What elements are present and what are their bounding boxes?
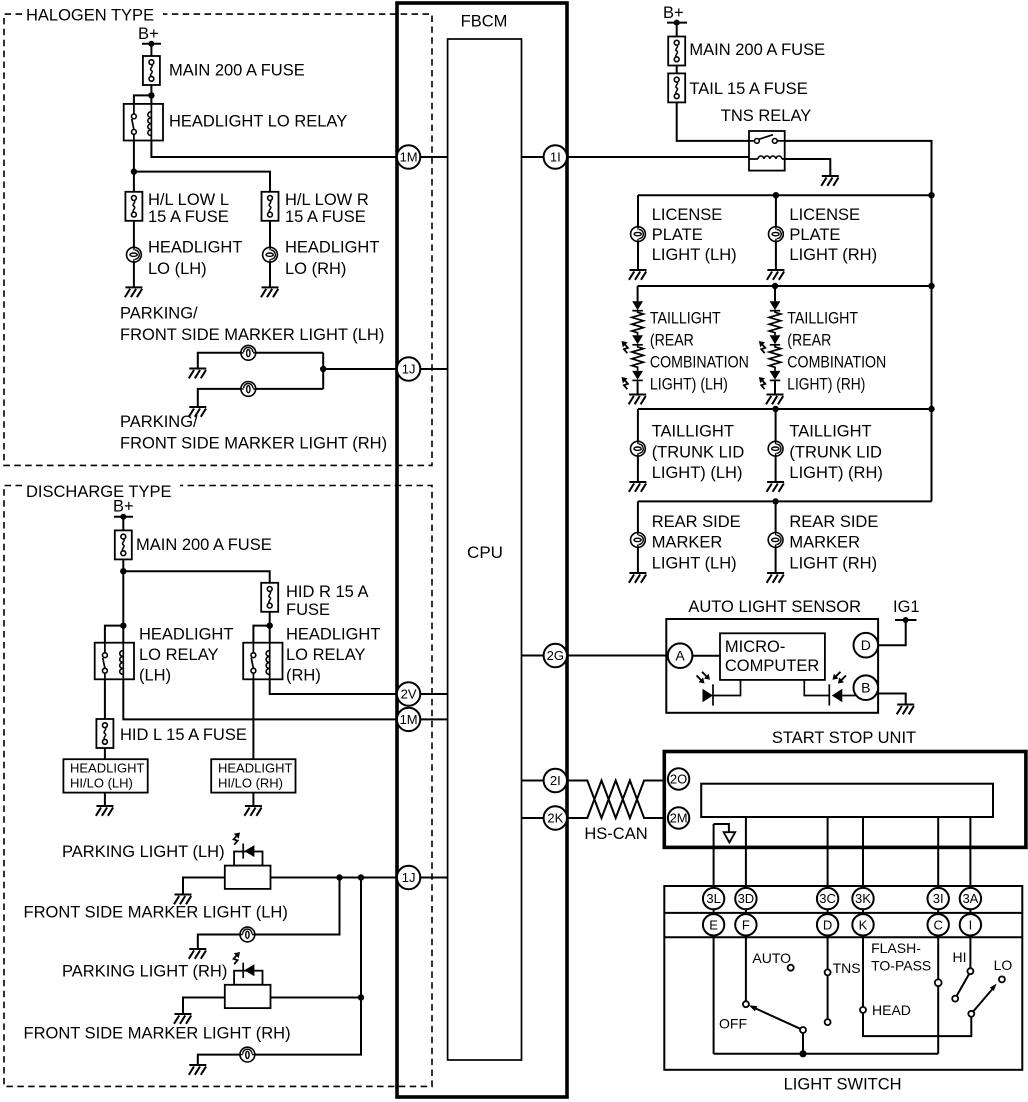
terminal 2M	[668, 807, 689, 828]
svg-text:2O: 2O	[670, 772, 687, 787]
wire vertical between rows	[322, 353, 324, 389]
wire bulb to ground	[775, 242, 777, 271]
node above RH relay	[267, 622, 273, 628]
ground (trunk RH)	[767, 482, 785, 492]
wire bus to bulb RH	[775, 409, 777, 442]
relay HEADLIGHT LO RELAY (halogen)	[124, 104, 163, 141]
svg-text:(RH): (RH)	[286, 666, 321, 684]
svg-text:D: D	[861, 637, 871, 653]
ground (rear marker LH)	[629, 573, 647, 583]
wire unit to ground	[104, 793, 106, 806]
wire B to ground	[877, 694, 906, 705]
HI blade	[957, 974, 970, 996]
svg-text:AUTO LIGHT SENSOR: AUTO LIGHT SENSOR	[688, 598, 861, 616]
svg-text:3I: 3I	[933, 891, 944, 906]
svg-text:LIGHT) (RH): LIGHT) (RH)	[787, 375, 865, 393]
svg-text:3D: 3D	[738, 891, 755, 906]
svg-text:TAILLIGHT: TAILLIGHT	[652, 423, 734, 441]
connector 1J (halogen)	[397, 357, 448, 380]
svg-text:HEADLIGHT: HEADLIGHT	[285, 239, 379, 257]
svg-text:REAR SIDE: REAR SIDE	[789, 513, 878, 531]
fuse HID R 15 A	[261, 583, 278, 612]
svg-text:I: I	[969, 917, 973, 932]
svg-text:C: C	[934, 917, 943, 932]
wire TNS switch to right rail	[785, 141, 932, 502]
svg-text:HS-CAN: HS-CAN	[584, 825, 647, 843]
connector 1J (parking)	[397, 866, 448, 889]
svg-text:CPU: CPU	[467, 543, 503, 562]
wire RH switch to HI/LO RH unit	[252, 679, 254, 759]
wire taillight bus	[638, 285, 932, 287]
wire bulb to ground	[269, 262, 271, 287]
node below fuse	[120, 568, 126, 574]
svg-text:FLASH-: FLASH-	[871, 940, 921, 956]
svg-text:(REAR: (REAR	[787, 331, 831, 349]
ground (headlight LO RH)	[261, 287, 279, 297]
svg-text:E: E	[709, 917, 718, 932]
ground (marker LH)	[189, 369, 207, 379]
wire jog to relay switch	[134, 95, 152, 104]
ground (taillight RH)	[766, 395, 784, 405]
TNS contacts	[825, 969, 831, 975]
node above LH relay	[120, 622, 126, 628]
IG1 terminal	[895, 619, 917, 621]
svg-text:TAIL 15 A FUSE: TAIL 15 A FUSE	[689, 80, 807, 98]
svg-text:FRONT SIDE MARKER LIGHT (LH): FRONT SIDE MARKER LIGHT (LH)	[120, 326, 384, 344]
node 1J junction	[320, 366, 326, 372]
wire LH switch to HID L fuse	[104, 679, 106, 719]
photodiode left	[697, 672, 741, 706]
bulb parking/front marker (LH)	[241, 345, 256, 360]
svg-text:TNS: TNS	[833, 960, 861, 976]
wire parking marker RH row	[198, 389, 323, 407]
wire bulb to ground	[637, 547, 639, 573]
wire branch to right fuse	[134, 172, 270, 192]
svg-text:(TRUNK LID: (TRUNK LID	[652, 443, 745, 461]
wire common bottom	[714, 1053, 939, 1055]
wires to light switch	[713, 824, 715, 888]
wire fuse to bulb LH	[133, 221, 135, 248]
svg-text:1M: 1M	[400, 712, 418, 727]
bulb LICENSE PLATE LIGHT (LH)	[631, 227, 646, 242]
wire parking RH to branch	[271, 997, 362, 999]
wire parking LH to 1J	[271, 877, 397, 879]
bulb TAILLIGHT TRUNK LID (RH)	[768, 441, 783, 456]
wire HID R fuse down	[269, 612, 271, 643]
svg-text:PLATE: PLATE	[652, 226, 703, 244]
wire parking LH left to ground	[183, 878, 225, 895]
ground (marker RH)	[189, 407, 207, 417]
wire TNS coil to ground	[785, 159, 831, 176]
terminal 3L	[703, 888, 724, 909]
svg-text:HEADLIGHT: HEADLIGHT	[286, 625, 380, 643]
wire bus to bulb LH	[637, 409, 639, 442]
terminal 3C	[817, 888, 838, 909]
svg-text:TAILLIGHT: TAILLIGHT	[787, 309, 858, 327]
svg-text:LIGHT (LH): LIGHT (LH)	[652, 246, 737, 264]
terminal C	[928, 914, 949, 935]
LED chain taillight rear combination (LH)	[622, 286, 644, 395]
svg-text:2V: 2V	[401, 687, 417, 702]
start stop unit box	[664, 752, 1026, 848]
svg-text:(LH): (LH)	[139, 666, 171, 684]
wire branch to HID R fuse	[123, 571, 269, 583]
svg-text:REAR SIDE: REAR SIDE	[652, 513, 741, 531]
wire parking marker LH row	[198, 353, 323, 369]
fuse HID L 15 A	[96, 719, 113, 748]
fuse MAIN 200 A (discharge)	[115, 530, 132, 559]
fuse MAIN 200 A (right)	[668, 37, 685, 66]
svg-text:MARKER: MARKER	[789, 534, 860, 552]
bulb TAILLIGHT TRUNK LID (LH)	[631, 441, 646, 456]
terminal D	[817, 914, 838, 935]
svg-text:LO RELAY: LO RELAY	[139, 646, 218, 664]
node pivot	[799, 1050, 806, 1057]
svg-text:FRONT SIDE MARKER LIGHT (LH): FRONT SIDE MARKER LIGHT (LH)	[24, 904, 288, 922]
svg-text:FBCM: FBCM	[461, 13, 508, 31]
svg-text:FRONT SIDE MARKER LIGHT (RH): FRONT SIDE MARKER LIGHT (RH)	[120, 434, 387, 452]
svg-text:HI: HI	[953, 949, 967, 965]
svg-text:TO-PASS: TO-PASS	[871, 958, 931, 974]
wire to 1J	[323, 368, 397, 370]
ground (front marker LH)	[189, 949, 207, 959]
fuse MAIN 200 A (halogen)	[143, 56, 160, 85]
svg-text:2K: 2K	[547, 811, 563, 826]
terminal B	[854, 675, 879, 700]
ground (rear marker RH)	[767, 573, 785, 583]
svg-text:OFF: OFF	[719, 1016, 747, 1032]
bulb REAR SIDE MARKER (RH)	[768, 533, 783, 548]
svg-text:HEADLIGHT: HEADLIGHT	[218, 761, 292, 776]
svg-text:HID R 15 A: HID R 15 A	[286, 583, 369, 601]
ground (license RH)	[767, 270, 785, 280]
svg-text:LO RELAY: LO RELAY	[286, 646, 365, 664]
connector 1M (halogen)	[397, 145, 448, 168]
flash-to-pass contact	[935, 979, 942, 986]
bulb REAR SIDE MARKER (LH)	[631, 533, 646, 548]
wire C down	[937, 936, 939, 1054]
svg-text:H/L LOW L: H/L LOW L	[148, 191, 229, 209]
box MICRO-COMPUTER	[720, 633, 825, 680]
node marker LH branch	[336, 874, 342, 880]
HS-CAN twisted pair bottom	[567, 781, 668, 819]
svg-text:START STOP UNIT: START STOP UNIT	[772, 729, 916, 747]
svg-text:MAIN 200 A FUSE: MAIN 200 A FUSE	[169, 62, 305, 80]
svg-text:D: D	[823, 917, 832, 932]
terminal 3I	[928, 888, 949, 909]
svg-text:MAIN 200 A FUSE: MAIN 200 A FUSE	[136, 536, 272, 554]
wire bus to bulb LH	[637, 195, 639, 227]
svg-text:3K: 3K	[855, 891, 871, 906]
wire I down	[969, 936, 971, 969]
B+ terminal (halogen)	[142, 43, 161, 45]
wire bulb to ground	[775, 547, 777, 573]
svg-text:LIGHT (RH): LIGHT (RH)	[789, 555, 877, 573]
svg-text:2G: 2G	[547, 648, 564, 663]
svg-text:IG1: IG1	[893, 598, 920, 616]
svg-text:F: F	[742, 917, 750, 932]
AUTO contact	[788, 965, 794, 971]
svg-text:MAIN 200 A FUSE: MAIN 200 A FUSE	[689, 41, 825, 59]
svg-text:LO: LO	[994, 957, 1013, 973]
svg-text:LO (LH): LO (LH)	[148, 260, 207, 278]
wire bus to bulb LH	[637, 501, 639, 533]
wire D to IG1	[878, 620, 906, 645]
connector 2K	[522, 806, 568, 829]
svg-text:TNS RELAY: TNS RELAY	[721, 107, 811, 125]
LO pivot contact	[968, 1011, 974, 1017]
wire trunk bus	[638, 408, 932, 410]
bulb HEADLIGHT LO (LH)	[126, 247, 141, 262]
svg-text:1I: 1I	[550, 150, 561, 165]
LED parking light (LH)	[225, 833, 271, 889]
wire K down	[863, 936, 971, 1037]
svg-text:B: B	[861, 680, 870, 696]
wire D down	[827, 936, 829, 1020]
svg-text:1J: 1J	[402, 870, 416, 885]
wire bus to bulb RH	[775, 501, 777, 533]
svg-text:TAILLIGHT: TAILLIGHT	[650, 309, 721, 327]
svg-text:HEADLIGHT: HEADLIGHT	[70, 761, 144, 776]
wire 1I to TNS relay coil	[567, 156, 749, 158]
wire unit to ground	[252, 793, 254, 806]
svg-text:15 A FUSE: 15 A FUSE	[285, 208, 366, 226]
HI contact top	[967, 968, 973, 974]
connector 2I	[522, 769, 568, 792]
wire jog to LH relay switch	[105, 626, 123, 643]
wire RH coil to 2V	[270, 679, 397, 694]
ground (headlight LO LH)	[125, 287, 143, 297]
svg-text:HI/LO (LH): HI/LO (LH)	[70, 776, 133, 791]
HS-CAN twisted pair top	[567, 781, 668, 819]
wire between fuses	[676, 66, 678, 74]
OFF contact	[743, 1001, 749, 1007]
connector 2G	[522, 644, 568, 667]
wire bulb to ground	[637, 456, 639, 482]
ground (taillight LH)	[629, 395, 647, 405]
svg-text:H/L LOW R: H/L LOW R	[285, 191, 369, 209]
ground (HI/LO RH)	[244, 806, 262, 816]
ground (license LH)	[629, 270, 647, 280]
svg-text:HI/LO (RH): HI/LO (RH)	[218, 776, 283, 791]
bulb LICENSE PLATE LIGHT (RH)	[769, 227, 784, 242]
wire marker LH row	[198, 878, 340, 950]
node below fuse	[148, 92, 154, 98]
connector stubs	[714, 909, 971, 915]
unit HEADLIGHT HI/LO (LH)	[63, 759, 147, 792]
wire rear marker bus	[638, 500, 932, 502]
svg-text:(REAR: (REAR	[650, 331, 694, 349]
wire bulb to ground	[775, 456, 777, 482]
svg-text:FRONT SIDE MARKER LIGHT (RH): FRONT SIDE MARKER LIGHT (RH)	[24, 1024, 291, 1042]
terminal 2O	[668, 768, 689, 789]
terminal 3K	[852, 888, 873, 909]
svg-text:PARKING/: PARKING/	[120, 413, 198, 431]
svg-text:PARKING LIGHT (LH): PARKING LIGHT (LH)	[62, 843, 225, 861]
ground (trunk LH)	[629, 482, 647, 492]
svg-text:HEAD: HEAD	[872, 1002, 911, 1018]
svg-text:A: A	[675, 648, 685, 664]
svg-text:LICENSE: LICENSE	[652, 206, 723, 224]
FBCM box	[397, 3, 567, 1097]
OFF blade pivot	[802, 1033, 804, 1051]
svg-text:3C: 3C	[819, 891, 836, 906]
svg-text:HEADLIGHT: HEADLIGHT	[148, 239, 242, 257]
ground (front marker RH)	[189, 1065, 207, 1075]
wire E down	[713, 936, 715, 1054]
bulb front side marker light (LH)	[240, 927, 255, 942]
OFF blade with arrow	[756, 1008, 801, 1028]
svg-text:LIGHT (RH): LIGHT (RH)	[789, 246, 877, 264]
light switch box	[664, 886, 1022, 1070]
output arrow symbol	[714, 824, 729, 832]
terminal F	[735, 914, 756, 935]
svg-text:1M: 1M	[400, 150, 418, 165]
wire fuse to HI/LO LH unit	[104, 748, 106, 759]
svg-text:HID L 15 A FUSE: HID L 15 A FUSE	[120, 726, 247, 744]
bulb HEADLIGHT LO (RH)	[263, 247, 278, 262]
sensor box	[666, 619, 878, 713]
terminal D	[854, 633, 879, 658]
ground (parking RH)	[174, 1014, 192, 1024]
wire B+ to fuse	[150, 44, 152, 56]
svg-text:(TRUNK LID: (TRUNK LID	[789, 443, 882, 461]
svg-text:3L: 3L	[706, 891, 720, 906]
svg-text:K: K	[859, 917, 868, 932]
wire relay switch down	[133, 141, 135, 192]
svg-text:B+: B+	[138, 25, 159, 43]
terminal 3A	[960, 888, 981, 909]
wire license bus	[638, 194, 932, 196]
relay HEADLIGHT LO RELAY (RH)	[243, 643, 282, 680]
svg-text:COMPUTER: COMPUTER	[725, 657, 820, 675]
connector 2V	[397, 682, 448, 705]
HEAD contact	[860, 1007, 866, 1013]
terminal K	[852, 914, 873, 935]
terminal I	[960, 914, 981, 935]
ground (HI/LO LH)	[96, 806, 114, 816]
wire parking RH left to ground	[183, 998, 225, 1015]
relay HEADLIGHT LO RELAY (LH)	[95, 643, 134, 680]
LED parking light (RH)	[225, 952, 271, 1008]
svg-text:LO (RH): LO (RH)	[285, 260, 346, 278]
svg-text:MICRO-: MICRO-	[725, 638, 786, 656]
connector 1M (discharge)	[397, 708, 448, 731]
wire fuse to junction	[150, 85, 152, 104]
wire relay coil to 1M	[151, 141, 397, 158]
wire fuse to TNS relay	[677, 102, 749, 140]
svg-text:1J: 1J	[402, 362, 416, 377]
svg-text:HEADLIGHT: HEADLIGHT	[139, 625, 233, 643]
terminal A	[668, 643, 693, 668]
LED chain taillight rear combination (RH)	[759, 286, 781, 395]
svg-text:LIGHT) (LH): LIGHT) (LH)	[652, 464, 743, 482]
svg-text:PLATE: PLATE	[789, 226, 840, 244]
wire bulb to ground	[133, 262, 135, 287]
wire fuse to bulb RH	[269, 221, 271, 248]
ground (TNS relay)	[821, 176, 839, 186]
ground (sensor B)	[897, 705, 915, 715]
ground (parking LH)	[174, 895, 192, 905]
wire bulb to ground	[637, 242, 639, 271]
wire F down	[745, 936, 747, 1002]
svg-text:FUSE: FUSE	[286, 601, 330, 619]
svg-text:COMBINATION: COMBINATION	[650, 353, 749, 371]
wire to fuse	[122, 517, 124, 531]
svg-text:LIGHT (LH): LIGHT (LH)	[652, 555, 737, 573]
wire bus to bulb RH	[775, 195, 777, 227]
svg-text:HEADLIGHT LO RELAY: HEADLIGHT LO RELAY	[169, 113, 347, 131]
svg-text:3A: 3A	[962, 891, 978, 906]
wire jog to RH relay switch	[253, 626, 269, 643]
wire fuse down	[122, 559, 124, 642]
node RH branch	[358, 874, 364, 880]
wire 2G to A	[567, 655, 668, 657]
svg-text:MARKER: MARKER	[652, 534, 723, 552]
unit HEADLIGHT HI/LO (RH)	[211, 759, 295, 792]
LO blade with arrow	[973, 990, 992, 1012]
dashed box DISCHARGE TYPE	[4, 486, 432, 1087]
svg-text:PARKING LIGHT (RH): PARKING LIGHT (RH)	[62, 963, 227, 981]
bulb front side marker light (RH)	[240, 1047, 255, 1062]
svg-text:B+: B+	[663, 4, 684, 22]
svg-text:DISCHARGE TYPE: DISCHARGE TYPE	[26, 483, 171, 501]
dashed box HALOGEN TYPE	[4, 14, 432, 465]
wire to fuse	[676, 23, 678, 37]
inner unit box	[701, 784, 993, 817]
svg-text:2I: 2I	[550, 773, 561, 788]
node H/L branch	[131, 168, 137, 174]
wire RH branch vertical	[198, 878, 361, 1066]
CPU box	[448, 39, 522, 1060]
svg-text:LICENSE: LICENSE	[789, 206, 860, 224]
svg-text:2M: 2M	[670, 811, 688, 826]
photodiode right	[804, 672, 856, 706]
svg-text:LIGHT SWITCH: LIGHT SWITCH	[784, 1076, 902, 1094]
fuse H/L LOW R 15 A	[262, 192, 279, 221]
svg-text:AUTO: AUTO	[752, 950, 791, 966]
connector 1I	[522, 145, 568, 168]
svg-text:15 A FUSE: 15 A FUSE	[148, 208, 229, 226]
svg-text:TAILLIGHT: TAILLIGHT	[789, 423, 871, 441]
bulb parking/front marker (RH)	[241, 382, 256, 397]
node parking RH junction	[358, 994, 364, 1000]
svg-text:PARKING/: PARKING/	[120, 305, 198, 323]
svg-text:LIGHT) (LH): LIGHT) (LH)	[650, 375, 728, 393]
wire A to microcomputer	[692, 655, 720, 657]
fuse H/L LOW L 15 A	[125, 192, 142, 221]
terminal E	[703, 914, 724, 935]
terminal 3D	[735, 888, 756, 909]
wire LH coil to 1M	[123, 679, 397, 719]
fuse TAIL 15 A	[668, 73, 685, 102]
svg-text:LIGHT) (RH): LIGHT) (RH)	[789, 464, 883, 482]
LO contact	[999, 976, 1005, 982]
svg-text:HALOGEN TYPE: HALOGEN TYPE	[26, 7, 154, 25]
svg-text:COMBINATION: COMBINATION	[787, 353, 886, 371]
